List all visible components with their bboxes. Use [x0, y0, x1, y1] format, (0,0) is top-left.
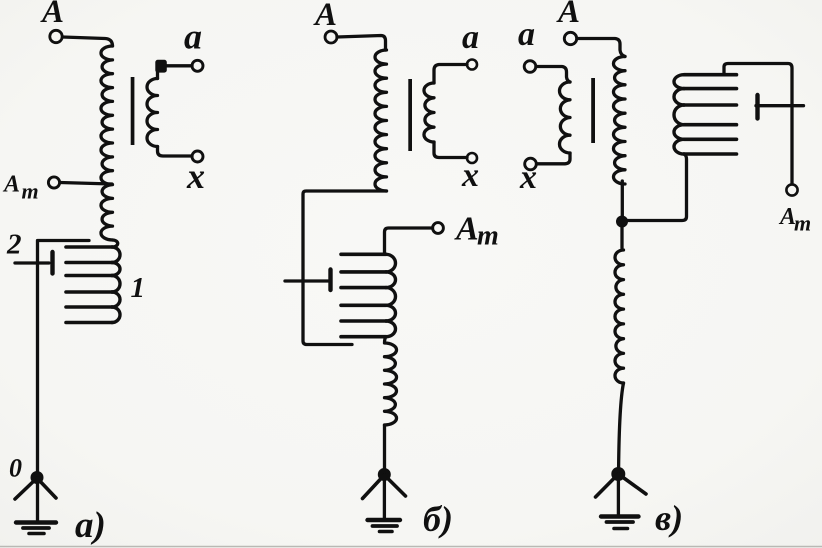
node 2 tap wire and grounding conductor (diagram a): [38, 241, 90, 472]
transformer core bar (diagram a): [131, 77, 135, 145]
svg-text:а: а: [518, 16, 535, 53]
wire terminal Am to winding 1 (diagram b): [385, 228, 433, 254]
wire reactor bottom to junction (diagram v): [626, 154, 687, 221]
wire secondary to terminal x (diagram a): [158, 147, 193, 157]
terminal A (diagram v): [564, 32, 576, 44]
autotransformer winding lower scalloped section (diagram v): [615, 222, 624, 384]
ground stem (diagram v): [617, 474, 620, 516]
reactor winding turn caps (diagram v): [674, 75, 684, 89]
wire terminal a to secondary (diagram b): [434, 65, 467, 84]
scan artifact line at bottom edge: [0, 546, 822, 548]
sliding contact arm (diagram v): [756, 104, 804, 107]
svg-text:х: х: [519, 159, 537, 196]
sliding contact bar (diagram v): [755, 95, 759, 119]
wire winding to ground (diagram b): [383, 425, 386, 469]
sliding contact bar (diagram b): [328, 270, 332, 291]
svg-text:А: А: [2, 172, 20, 198]
terminal x (diagram v): [525, 158, 537, 170]
wire terminal Am to winding tap (diagram a): [60, 183, 112, 185]
svg-text:т: т: [22, 179, 39, 204]
ground dot (diagram v): [611, 467, 625, 481]
wire reactor top to terminal Am (diagram v): [724, 64, 792, 185]
winding 1 turn lines (diagram b): [341, 253, 386, 257]
terminal x (diagram b): [467, 153, 477, 163]
svg-text:а: а: [184, 17, 202, 57]
svg-text:2: 2: [6, 229, 22, 261]
wire winding bottom to contact column (diagram b): [303, 191, 387, 345]
svg-text:А: А: [454, 211, 479, 248]
ground crow-foot right (diagram a): [37, 478, 56, 498]
svg-text:1: 1: [131, 272, 146, 304]
wire terminal A to winding (diagram b): [337, 36, 386, 51]
svg-text:т: т: [794, 211, 811, 236]
sliding contact arm (diagram a): [15, 261, 49, 264]
reactor winding turn lines (diagram v): [684, 73, 737, 77]
svg-text:0: 0: [9, 454, 22, 483]
terminal x (diagram a): [192, 151, 203, 162]
winding 1 turn caps (diagram a): [112, 247, 120, 263]
svg-text:в): в): [655, 498, 683, 538]
ground dot (diagram b): [378, 468, 391, 481]
terminal Am (diagram b): [433, 223, 444, 234]
terminal A (diagram b): [325, 31, 337, 43]
earth symbol (diagram a): [16, 520, 56, 524]
winding 1 turn lines (diagram a): [66, 245, 112, 249]
svg-text:б): б): [423, 499, 453, 539]
winding 1 connector (diagram a): [112, 240, 118, 247]
secondary winding (diagram a): [147, 79, 158, 147]
terminal A (diagram a): [50, 30, 62, 42]
autotransformer primary winding upper section (diagram b): [375, 50, 387, 191]
secondary winding (diagram b): [424, 83, 434, 142]
wire terminal A to winding (diagram v): [577, 39, 625, 57]
earth symbol (diagram b): [368, 518, 401, 522]
autotransformer primary winding upper section (diagram a): [101, 46, 113, 240]
winding 1 turn caps (diagram b): [386, 254, 396, 272]
svg-text:х: х: [186, 156, 205, 196]
wire secondary to terminal x (diagram v): [537, 153, 570, 164]
wire terminal a to secondary (diagram v): [536, 67, 570, 83]
wire terminal A to winding (diagram a): [63, 37, 113, 46]
secondary winding (diagram v): [559, 82, 570, 153]
polarity dot (diagram a): [155, 60, 167, 73]
ground crow-foot right (diagram v): [618, 474, 646, 494]
autotransformer winding upper section (diagram v): [613, 57, 625, 185]
wire winding to ground (diagram v): [619, 383, 624, 468]
terminal a (diagram b): [467, 60, 477, 70]
wire terminal a to secondary (diagram a): [158, 66, 193, 79]
ground stem (diagram b): [383, 475, 386, 518]
svg-text:А: А: [40, 0, 64, 30]
earth symbol (diagram v): [601, 514, 639, 518]
ground stem (diagram a): [36, 478, 39, 520]
ground crow-foot right (diagram b): [384, 475, 405, 496]
transformer core bar (diagram b): [408, 79, 412, 151]
wire secondary to terminal x (diagram b): [434, 142, 467, 158]
ground crow-foot left (diagram a): [15, 478, 37, 499]
ground node 0 dot (diagram a): [31, 471, 44, 484]
ground crow-foot left (diagram v): [596, 474, 619, 497]
svg-text:т: т: [477, 221, 499, 252]
terminal a (diagram a): [192, 60, 203, 71]
sliding contact bar (diagram a): [50, 252, 54, 274]
svg-text:А: А: [556, 0, 580, 30]
winding 1 lower scalloped section (diagram b): [385, 337, 397, 425]
wire winding to junction (diagram v): [621, 181, 624, 218]
svg-text:а): а): [75, 505, 106, 546]
terminal a (diagram v): [524, 61, 536, 73]
terminal Am (diagram a): [48, 177, 59, 188]
svg-text:А: А: [313, 0, 337, 33]
transformer core bar (diagram v): [591, 78, 595, 143]
sliding contact arm (diagram b): [285, 279, 328, 282]
svg-text:х: х: [461, 157, 479, 194]
ground crow-foot left (diagram b): [363, 475, 385, 499]
terminal Am (diagram v): [786, 184, 797, 195]
junction dot (diagram v): [616, 216, 628, 228]
svg-text:а: а: [462, 19, 479, 56]
